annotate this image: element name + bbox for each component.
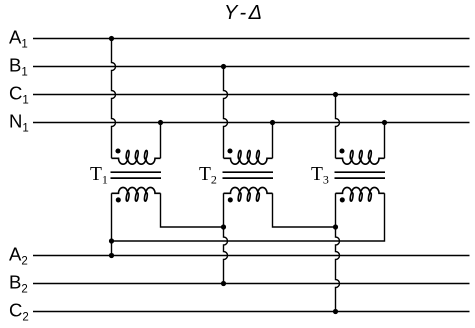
junction dot T1 primary right on N1	[158, 120, 163, 125]
junction dot T1 primary left on phase line	[109, 36, 114, 41]
wire T3 primary right: N1 to winding	[384, 123, 386, 159]
inductor T1 secondary winding	[112, 187, 161, 201]
wire T1 secondary left: winding to A2	[111, 193, 113, 255]
wire line A2	[33, 255, 470, 257]
junction dot T1-T2 secondary link	[221, 224, 226, 229]
wire line C1	[33, 94, 470, 96]
wire T2 secondary right: winding down and over to T3	[273, 193, 336, 227]
wire T2 secondary left: winding to B2 with hops	[224, 193, 228, 283]
inductor T3 secondary winding	[336, 187, 385, 201]
wire T1 primary left: phase line to winding	[112, 39, 116, 159]
svg-text:Y - Δ: Y - Δ	[224, 2, 262, 24]
wire T1 secondary right: winding down and over to T2	[161, 193, 224, 227]
wire line B1	[33, 66, 470, 68]
polarity dot T2 primary	[227, 148, 232, 153]
wire T1 primary right: N1 to winding	[160, 123, 162, 159]
inductor T2 secondary winding	[224, 187, 273, 201]
wire line N1	[33, 122, 470, 124]
core T3	[335, 172, 386, 178]
junction dot T2-T3 secondary link	[333, 224, 338, 229]
junction dot T2 primary right on N1	[270, 120, 275, 125]
junction dot T2 secondary left on B2	[221, 281, 226, 286]
wire T3 secondary right: winding down and back to T1 left (delta closing)	[112, 193, 385, 241]
wire T3 primary left: phase line to winding	[336, 95, 340, 159]
core T2	[223, 172, 274, 178]
junction dot T3 primary right on N1	[382, 120, 387, 125]
polarity dot T3 secondary	[340, 197, 345, 202]
junction dot T3 secondary left on C2	[333, 309, 338, 314]
polarity dot T2 secondary	[228, 197, 233, 202]
inductor T1 primary winding	[112, 150, 161, 164]
junction dot T1 secondary left on A2	[109, 253, 114, 258]
polarity dot T3 primary	[339, 148, 344, 153]
wire line A1	[33, 38, 470, 40]
wire line B2	[33, 283, 470, 285]
wire T3 secondary left: winding to C2 with hops	[336, 193, 340, 311]
polarity dot T1 secondary	[116, 197, 121, 202]
junction dot T1 secondary left / delta line	[109, 238, 114, 243]
wire T2 primary right: N1 to winding	[272, 123, 274, 159]
core T1	[111, 172, 162, 178]
junction dot T3 primary left on phase line	[333, 92, 338, 97]
inductor T2 primary winding	[224, 150, 273, 164]
wire line C2	[33, 311, 470, 313]
junction dot T2 primary left on phase line	[221, 64, 226, 69]
wire T2 primary left: phase line to winding	[224, 67, 228, 159]
inductor T3 primary winding	[336, 150, 385, 164]
polarity dot T1 primary	[115, 148, 120, 153]
